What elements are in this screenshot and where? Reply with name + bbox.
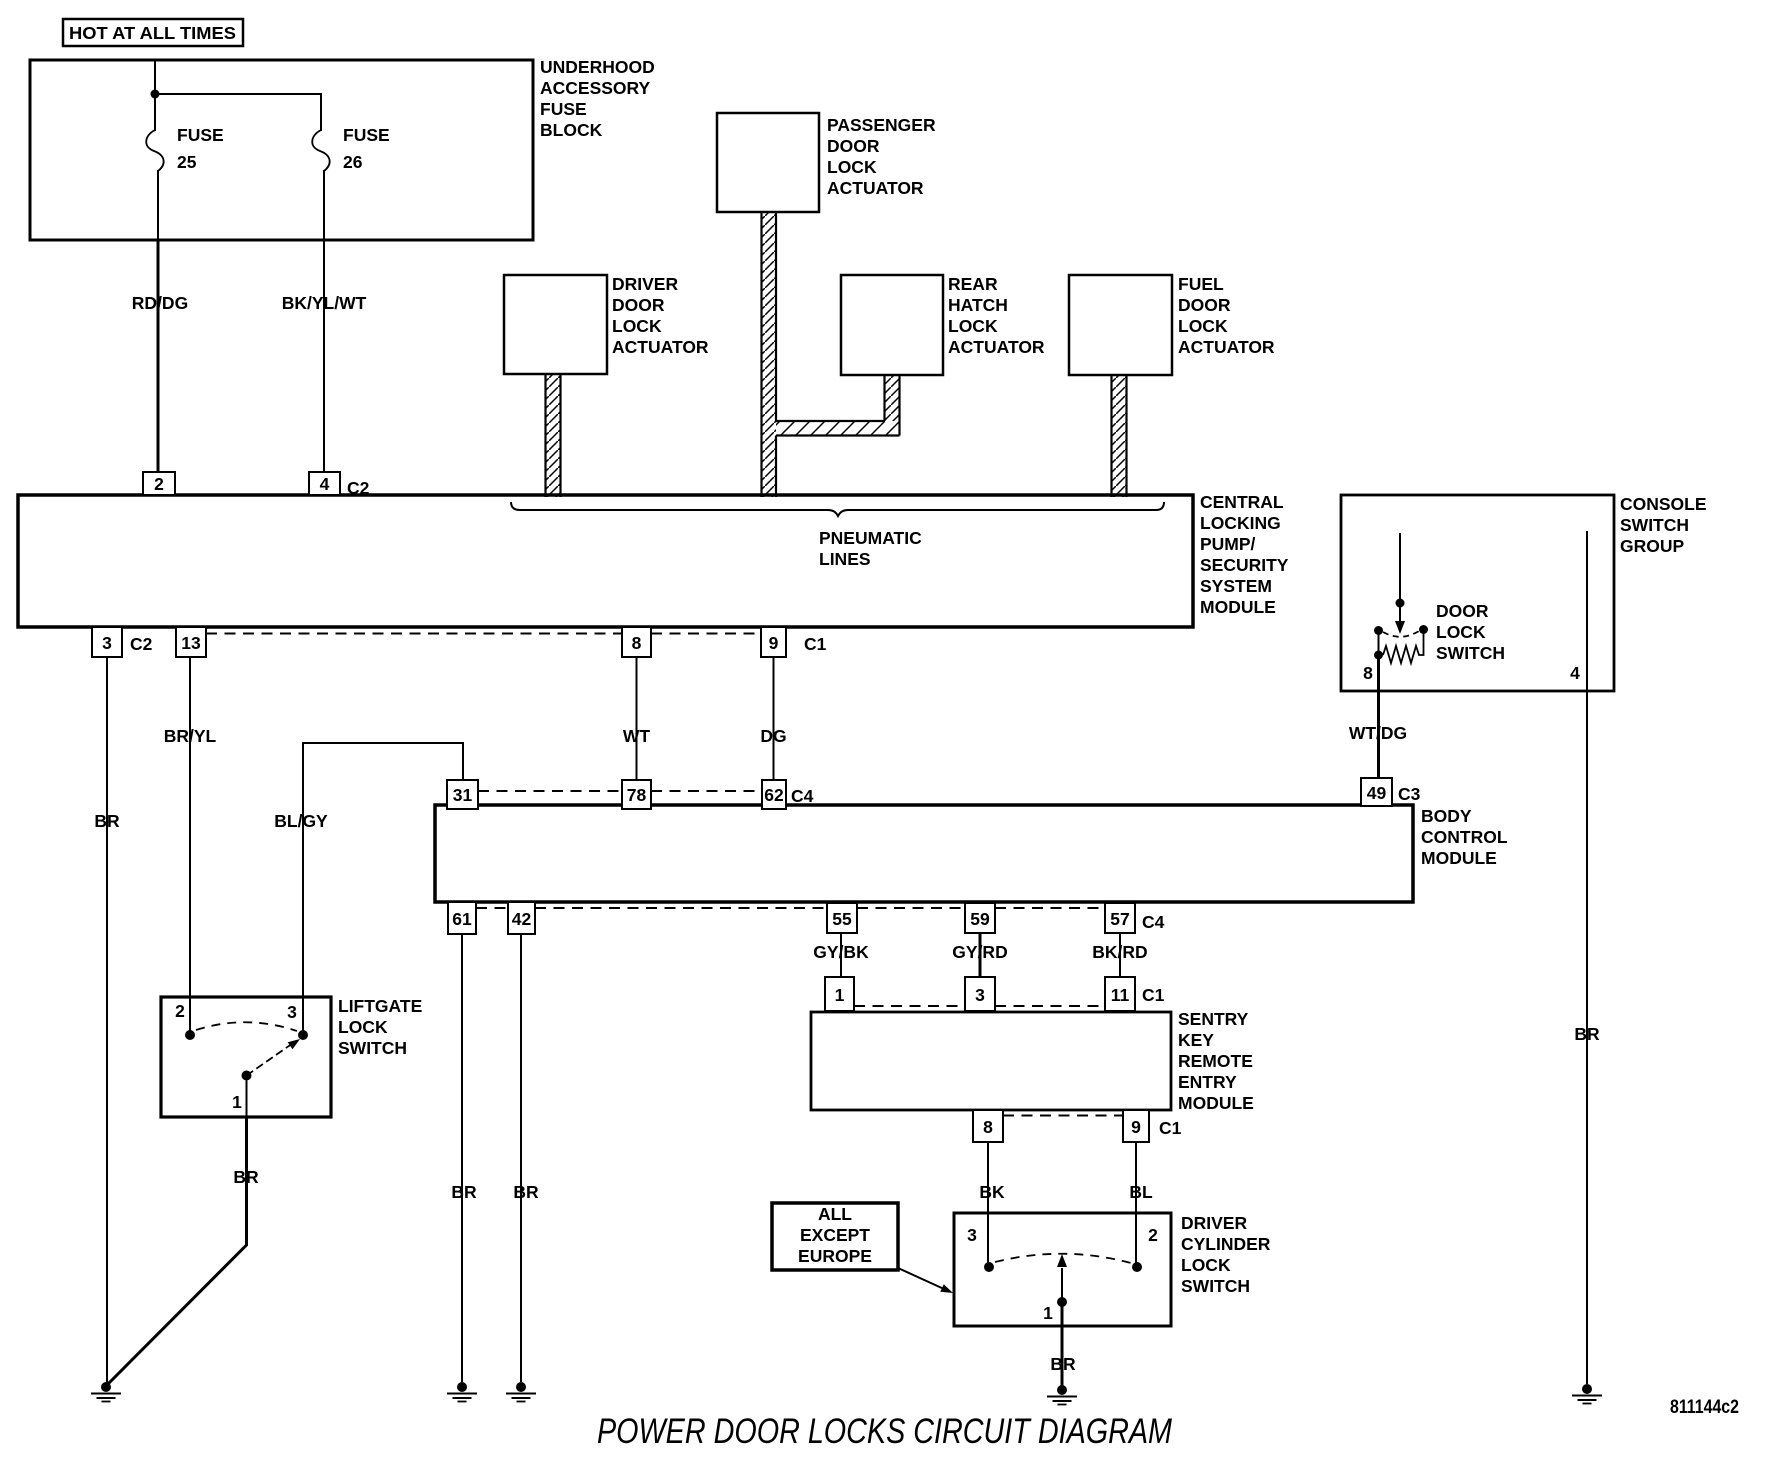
svg-text:EXCEPT: EXCEPT xyxy=(800,1225,870,1245)
svg-text:49: 49 xyxy=(1367,783,1387,803)
callout arrow xyxy=(898,1268,953,1293)
svg-text:DG: DG xyxy=(760,726,786,746)
svg-text:26: 26 xyxy=(343,152,363,172)
cylinder actuator arrow xyxy=(1057,1254,1067,1298)
wire BL SKREM 9 to cylinder switch 2 xyxy=(1129,1142,1153,1265)
pin 11 C1 xyxy=(1105,977,1165,1011)
cylinder contact 3 dot xyxy=(984,1262,994,1272)
svg-text:BR: BR xyxy=(233,1167,259,1187)
cylinder throw dashed arc xyxy=(995,1254,1131,1263)
svg-text:BL/GY: BL/GY xyxy=(274,811,328,831)
wire BR BCM 42 to ground xyxy=(513,934,539,1382)
svg-text:811144c2: 811144c2 xyxy=(1670,1396,1739,1418)
svg-text:C4: C4 xyxy=(1142,912,1165,932)
svg-text:C1: C1 xyxy=(1159,1118,1182,1138)
wire junction to fuse 26 xyxy=(155,94,321,131)
switch contact right xyxy=(1419,625,1428,634)
svg-text:BR: BR xyxy=(451,1182,477,1202)
svg-text:POWER DOOR LOCKS CIRCUIT DIAGR: POWER DOOR LOCKS CIRCUIT DIAGRAM xyxy=(597,1412,1173,1451)
rear hatch lock actuator xyxy=(841,274,1045,375)
cylinder contact 2 dot xyxy=(1132,1262,1142,1272)
passenger door lock actuator xyxy=(717,113,936,212)
wire fuse 25 to block bottom xyxy=(157,170,159,240)
fuel door lock actuator xyxy=(1069,274,1275,375)
fuse 25 xyxy=(146,125,223,172)
pin 8 xyxy=(973,1110,1003,1142)
dashed connector line 31 to 78 xyxy=(478,790,622,792)
svg-text:BR: BR xyxy=(1050,1354,1076,1374)
wire BK SKREM 8 to cylinder switch 3 xyxy=(979,1142,1005,1265)
svg-text:3: 3 xyxy=(967,1225,977,1245)
pin 31 xyxy=(447,780,478,809)
svg-text:WT/DG: WT/DG xyxy=(1349,723,1407,743)
svg-text:WT: WT xyxy=(623,726,651,746)
pin 57 C4 xyxy=(1105,903,1165,933)
svg-text:LINES: LINES xyxy=(819,549,871,569)
switch throw dashed arc xyxy=(1383,631,1419,637)
pin 2 C2 xyxy=(143,472,175,495)
svg-text:RD/DG: RD/DG xyxy=(132,293,188,313)
ground G3 xyxy=(506,1382,536,1402)
pin 62 C4 xyxy=(762,780,814,809)
cylinder common dot xyxy=(1057,1297,1067,1307)
underhood accessory fuse block box xyxy=(30,57,655,240)
wire BR cylinder pin 1 to ground xyxy=(1050,1305,1076,1386)
svg-text:C4: C4 xyxy=(791,786,814,806)
hot at all times label box xyxy=(63,19,243,46)
svg-text:2: 2 xyxy=(1148,1225,1158,1245)
svg-text:11: 11 xyxy=(1111,985,1130,1005)
liftgate contact 2 dot xyxy=(185,1030,195,1040)
svg-text:3: 3 xyxy=(102,633,112,653)
pin 59 xyxy=(965,903,995,933)
wire feed into door lock switch xyxy=(1399,533,1401,599)
svg-text:9: 9 xyxy=(1131,1117,1141,1137)
wire GY/RD BCM 59 to SKREM 3 xyxy=(952,934,1007,977)
wire WT pin 8 to BCM 78 xyxy=(623,657,651,780)
dashed connector line 1 to 3 xyxy=(854,1005,965,1007)
pin 8 C1 xyxy=(622,627,651,657)
wire BR BCM 61 to ground xyxy=(451,934,477,1382)
wire from fuse block top to junction xyxy=(154,61,156,93)
liftgate throw dashed arc xyxy=(196,1022,297,1031)
svg-text:3: 3 xyxy=(975,985,985,1005)
liftgate contact 3 dot xyxy=(298,1030,308,1040)
svg-text:55: 55 xyxy=(832,909,852,929)
sentry key remote entry module U3 xyxy=(811,1009,1254,1113)
dashed connector line 61 to 42 xyxy=(476,907,508,909)
wire BK/YL/WT fuse block to pin 4 xyxy=(282,240,367,472)
dashed connector line 8 to 9 xyxy=(651,633,761,635)
svg-text:4: 4 xyxy=(1570,663,1580,683)
pneumatic line fuel door (hatched) xyxy=(1112,375,1127,497)
svg-text:C1: C1 xyxy=(804,634,827,654)
svg-text:EUROPE: EUROPE xyxy=(798,1246,872,1266)
svg-text:ALL: ALL xyxy=(818,1204,852,1224)
svg-text:GY/RD: GY/RD xyxy=(952,942,1007,962)
wire BK/RD BCM 57 to SKREM 11 xyxy=(1092,934,1147,977)
svg-text:2: 2 xyxy=(154,474,164,494)
svg-text:57: 57 xyxy=(1110,909,1129,929)
svg-text:C2: C2 xyxy=(130,634,153,654)
svg-text:59: 59 xyxy=(970,909,990,929)
wire fuse 26 to block bottom xyxy=(323,170,325,240)
node junction dot xyxy=(151,90,160,99)
wire WT/DG switch to BCM pin 49 xyxy=(1349,655,1407,779)
svg-text:BR/YL: BR/YL xyxy=(164,726,217,746)
svg-text:2: 2 xyxy=(175,1001,185,1021)
wire GY/BK BCM 55 to SKREM 1 xyxy=(813,934,869,977)
svg-text:78: 78 xyxy=(627,785,647,805)
svg-text:8: 8 xyxy=(983,1117,993,1137)
wire left contact down xyxy=(1378,631,1380,656)
svg-text:C1: C1 xyxy=(1142,985,1165,1005)
svg-text:31: 31 xyxy=(453,785,473,805)
svg-text:8: 8 xyxy=(1363,663,1373,683)
svg-text:FUSE: FUSE xyxy=(343,125,390,145)
pin 3 C2 xyxy=(92,627,153,657)
switch actuator arrow xyxy=(1395,607,1405,634)
svg-text:8: 8 xyxy=(632,633,642,653)
pin 42 xyxy=(508,902,535,934)
wire BR liftgate pin 1 to ground xyxy=(106,1080,259,1386)
svg-text:4: 4 xyxy=(320,474,330,494)
svg-text:BR: BR xyxy=(94,811,120,831)
ground G4 xyxy=(1047,1385,1077,1405)
wire BR/YL pin 13 to liftgate switch pin 2 xyxy=(164,657,217,1035)
fuse 26 xyxy=(312,125,389,172)
wire BR pin 3 to ground xyxy=(94,657,120,1383)
dashed connector line 59 to 57 xyxy=(995,907,1105,909)
wire BR console pin 4 to ground xyxy=(1574,531,1600,1384)
all except europe callout box xyxy=(772,1203,898,1270)
pin 13 xyxy=(176,627,206,657)
wire junction to fuse 25 xyxy=(154,94,156,131)
pin 9 C1 xyxy=(761,627,827,657)
svg-text:13: 13 xyxy=(181,633,201,653)
svg-text:BK/YL/WT: BK/YL/WT xyxy=(282,293,367,313)
svg-text:BR: BR xyxy=(1574,1024,1600,1044)
pin 78 xyxy=(622,780,651,809)
ground G2 xyxy=(447,1382,477,1402)
pin 4 C2 xyxy=(309,472,370,498)
svg-text:61: 61 xyxy=(452,909,472,929)
pneumatic lines brace label xyxy=(511,502,1164,569)
driver cylinder lock switch S3 xyxy=(954,1213,1271,1326)
svg-text:1: 1 xyxy=(1043,1303,1053,1323)
ground G5 xyxy=(1572,1384,1602,1404)
svg-text:62: 62 xyxy=(764,785,784,805)
dashed connector line 8 to 9 xyxy=(1003,1115,1123,1117)
pin 1 xyxy=(825,977,854,1011)
svg-text:1: 1 xyxy=(835,985,845,1005)
dashed connector line 42 to 55 xyxy=(535,907,827,909)
pin 49 C3 xyxy=(1361,778,1421,806)
driver door lock actuator xyxy=(504,274,709,374)
dashed connector line 55 to 59 xyxy=(857,907,965,909)
svg-text:SENTRYKEYREMOTEENTRYMODULE: SENTRYKEYREMOTEENTRYMODULE xyxy=(1178,1009,1254,1113)
node dot resistor tap xyxy=(1374,651,1383,660)
liftgate common dot xyxy=(242,1071,252,1081)
dashed connector line 13 to 8 xyxy=(206,633,622,635)
svg-text:C2: C2 xyxy=(347,478,370,498)
ground G1 xyxy=(91,1382,121,1402)
svg-text:GY/BK: GY/BK xyxy=(813,942,869,962)
liftgate actuator arrow xyxy=(247,1039,301,1076)
svg-text:BK/RD: BK/RD xyxy=(1092,942,1147,962)
dashed connector line 78 to 62 xyxy=(651,790,762,792)
svg-text:BK: BK xyxy=(979,1182,1005,1202)
svg-text:3: 3 xyxy=(287,1002,297,1022)
svg-text:FUSE: FUSE xyxy=(177,125,224,145)
svg-text:42: 42 xyxy=(512,909,532,929)
svg-text:25: 25 xyxy=(177,152,197,172)
dashed connector line 3 to 11 xyxy=(995,1005,1105,1007)
svg-text:BL: BL xyxy=(1129,1182,1153,1202)
svg-text:HOT AT ALL TIMES: HOT AT ALL TIMES xyxy=(69,23,236,43)
body control module U2 xyxy=(435,805,1508,902)
svg-text:C3: C3 xyxy=(1398,784,1421,804)
svg-text:BR: BR xyxy=(513,1182,539,1202)
pin 9 C1 xyxy=(1123,1110,1182,1142)
node dot door lock switch common xyxy=(1396,599,1405,608)
pneumatic line horizontal link (hatched) xyxy=(776,421,900,436)
liftgate lock switch S2 xyxy=(161,996,422,1117)
resistor R1 xyxy=(1383,633,1424,663)
pneumatic line passenger door (hatched) xyxy=(762,212,777,497)
pin 3 xyxy=(965,977,995,1011)
wire RD/DG fuse block to pin 2 xyxy=(132,240,188,472)
pneumatic line rear hatch (hatched) xyxy=(885,375,900,436)
switch contact left pin 8 xyxy=(1374,626,1383,635)
svg-text:1: 1 xyxy=(232,1092,242,1112)
wire DG pin 9 to BCM 62 xyxy=(760,657,786,780)
central locking pump / security system module U1 xyxy=(18,492,1289,627)
pin 61 xyxy=(448,902,476,934)
wire BL/GY liftgate pin 3 to BCM 31 xyxy=(274,743,463,1033)
console switch group box xyxy=(1341,494,1707,691)
pin 55 xyxy=(827,903,857,933)
svg-text:9: 9 xyxy=(769,633,779,653)
svg-text:PNEUMATIC: PNEUMATIC xyxy=(819,528,922,548)
pneumatic line driver door (hatched) xyxy=(546,374,561,497)
svg-text:CENTRALLOCKINGPUMP/SECURITYSYS: CENTRALLOCKINGPUMP/SECURITYSYSTEMMODULE xyxy=(1200,492,1289,617)
